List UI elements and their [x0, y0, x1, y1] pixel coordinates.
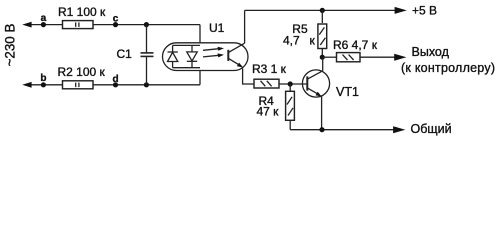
node b — [41, 82, 46, 87]
junction: R5 top — [320, 8, 325, 13]
wire: U1 emitter to R3 — [243, 68, 254, 84]
resistor R4 — [289, 84, 291, 91]
svg-text:(к контроллеру): (к контроллеру) — [401, 61, 495, 75]
wire: ground rail — [290, 129, 393, 131]
wire: VT1 emitter down — [321, 96, 323, 130]
arrow: output terminal — [394, 54, 406, 61]
arrow: common terminal — [393, 126, 405, 133]
resistor R1 — [63, 21, 94, 29]
junction: C1 bottom — [144, 82, 149, 87]
arrow: +5V terminal — [395, 7, 407, 14]
wire: LED loop top — [173, 44, 200, 46]
capacitor C1 — [146, 25, 148, 53]
svg-text:C1: C1 — [117, 47, 133, 61]
svg-text:47 к: 47 к — [257, 105, 280, 119]
junction: emitter/ground — [319, 127, 324, 132]
resistor R3 — [254, 79, 279, 88]
arrow: top-left AC terminal — [22, 22, 31, 28]
junction: R3/R4/base — [288, 81, 293, 86]
op-amp U1 optocoupler body — [163, 43, 249, 71]
arrow: light coupling top — [203, 49, 219, 51]
svg-text:c: c — [113, 14, 119, 25]
wire: top input line a-R1-c — [31, 24, 200, 26]
diode: right LED (down) — [191, 45, 193, 52]
svg-text:a: a — [41, 13, 47, 24]
svg-text:VT1: VT1 — [336, 85, 359, 99]
svg-text:к: к — [310, 33, 316, 47]
wire: input vertical into U1 — [199, 25, 201, 85]
svg-text:~230 В: ~230 В — [2, 24, 17, 67]
svg-text:b: b — [40, 73, 46, 84]
wire: R3 to base junction — [279, 83, 307, 85]
svg-text:4,7: 4,7 — [283, 33, 300, 47]
resistor R5 — [321, 10, 323, 23]
svg-text:d: d — [112, 74, 118, 85]
wire: +5V rail — [245, 9, 395, 11]
svg-text:U1: U1 — [209, 21, 225, 35]
wire: LED loop bottom — [173, 67, 200, 69]
svg-text:R2 100 к: R2 100 к — [58, 65, 106, 79]
transistor VT1 — [302, 70, 329, 97]
arrow: bottom-left AC terminal — [22, 82, 31, 88]
wire: bottom input line b-R2-d — [31, 84, 200, 86]
diode: left LED (up) — [172, 45, 174, 52]
svg-text:Общий: Общий — [411, 122, 452, 136]
svg-text:R1 100 к: R1 100 к — [58, 5, 106, 19]
node a — [41, 22, 46, 27]
svg-text:R3 1 к: R3 1 к — [252, 62, 287, 76]
resistor R6 — [322, 56, 336, 58]
resistor R2 — [63, 81, 94, 89]
junction: R5/R6/collector — [320, 55, 325, 60]
wire: U1 collector to +5V rail — [244, 10, 246, 43]
junction: C1 top — [144, 22, 149, 27]
svg-text:Выход: Выход — [412, 45, 450, 59]
node c — [113, 22, 118, 27]
transistor: U1 phototransistor — [227, 50, 229, 61]
arrow: light coupling bottom — [203, 55, 219, 57]
svg-text:+5 В: +5 В — [412, 4, 437, 18]
wire: VT1 collector up — [322, 58, 324, 71]
node d — [113, 82, 118, 87]
svg-text:R6 4,7 к: R6 4,7 к — [333, 38, 378, 52]
